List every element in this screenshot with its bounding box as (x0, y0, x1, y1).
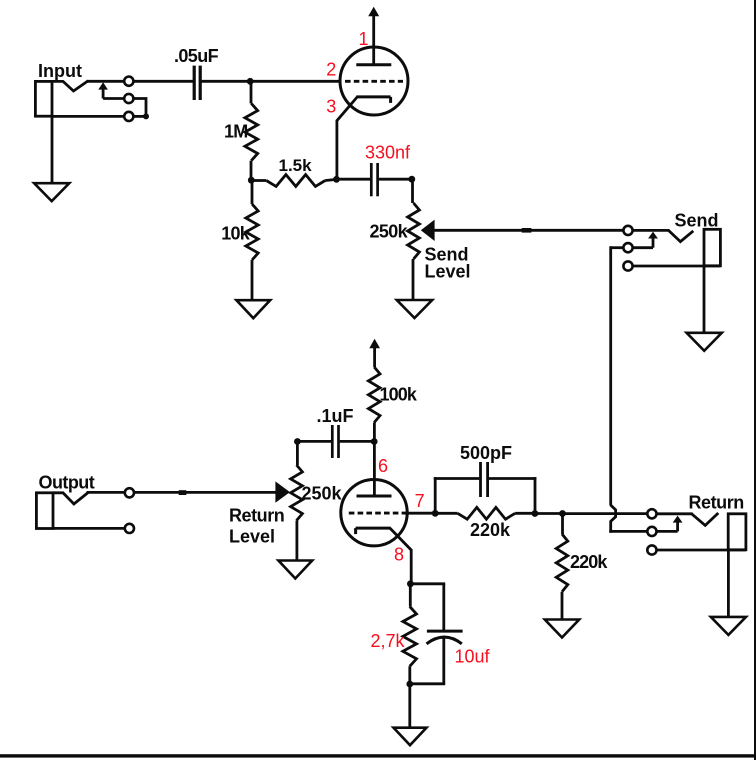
label R7 2,7k (371, 631, 406, 651)
jack J1 Input body (35, 81, 52, 116)
wire node E to C3 (297, 440, 331, 443)
jack J1 ring terminal (124, 94, 133, 103)
svg-text:10uf: 10uf (455, 647, 491, 667)
resistor R5 220k (435, 507, 535, 519)
ground input jack (34, 183, 69, 201)
capacitor C4 500pF (481, 462, 488, 497)
ground R3 (236, 300, 270, 318)
svg-text:250k: 250k (370, 222, 409, 242)
wire return bus to J4 ring (609, 530, 647, 533)
potentiometer VR2 wiper arrow (275, 481, 290, 502)
pin 7 label (415, 491, 425, 511)
svg-text:Output: Output (39, 473, 95, 493)
svg-text:.05uF: .05uF (174, 46, 219, 66)
wire node F to V2 plate (373, 442, 376, 497)
ground VR1 (397, 299, 432, 318)
label C2 330nf (365, 142, 411, 162)
svg-text:Send: Send (675, 210, 719, 230)
wire node C to C2 (337, 178, 371, 181)
jack J2 body (704, 229, 720, 265)
pin 3 label (326, 97, 336, 117)
jack J2 tip spring (669, 230, 694, 241)
node J junction (559, 510, 566, 517)
jack J1 sleeve terminal (124, 112, 133, 121)
svg-text:Return: Return (229, 505, 284, 525)
wire artifact segment (522, 228, 532, 233)
resistor R2 1.5k (251, 175, 337, 187)
tube V1 plate (356, 63, 391, 66)
ground return jack (711, 617, 746, 635)
jack J3 sleeve wire (53, 527, 124, 530)
tube V2 plate (357, 495, 392, 498)
wire node A to V1 grid (250, 80, 340, 83)
capacitor C5 10uf minus plate (427, 637, 462, 644)
node C junction (333, 176, 340, 183)
capacitor C2 330nf (371, 163, 377, 196)
jack J1 tip contact (52, 81, 88, 91)
jack J4 tip terminal (647, 509, 656, 518)
svg-text:250k: 250k (302, 483, 343, 503)
jack J1 switch arrow (98, 82, 108, 98)
label R1 1M (224, 122, 248, 142)
wire node I to node J (535, 512, 563, 515)
tube V2 cathode (356, 528, 391, 534)
wire C5 to bottom (410, 637, 445, 684)
label Return (689, 492, 744, 512)
jack J4 sleeve terminal (647, 545, 656, 554)
svg-text:500pF: 500pF (460, 443, 512, 463)
wire node J to Return jack tip (563, 512, 648, 515)
capacitor C5 10uf plus plate (427, 630, 463, 633)
label R6 220k (570, 552, 608, 572)
jack J4 ring terminal (647, 527, 656, 536)
wire J2 to ground (703, 266, 706, 334)
label Output (39, 473, 95, 493)
svg-text:220k: 220k (570, 552, 608, 572)
tube V2 grid (349, 512, 407, 515)
wire J2 sleeve (633, 265, 720, 268)
svg-text:Input: Input (38, 61, 82, 81)
node E junction (294, 438, 301, 445)
ground send jack (687, 333, 722, 351)
svg-text:8: 8 (394, 545, 404, 565)
pin 6 label (378, 456, 388, 476)
node H junction (407, 580, 414, 587)
svg-text:Return: Return (689, 492, 744, 512)
wire node H to C5 (410, 584, 445, 631)
resistor R7 2.7k (403, 584, 417, 685)
svg-text:.1uF: .1uF (317, 406, 354, 426)
label R4 100k (380, 385, 418, 405)
label Send Level (425, 245, 471, 282)
wire J4 to ground (727, 550, 730, 618)
wire J4 tip contact (657, 512, 693, 515)
label Return Level (229, 505, 284, 546)
svg-text:6: 6 (378, 456, 388, 476)
wire C4 loop left (434, 477, 480, 513)
svg-text:Level: Level (425, 261, 471, 281)
wire C4 loop right (489, 477, 537, 513)
jack J3 tip terminal (125, 488, 134, 497)
label R5 220k (470, 520, 511, 540)
jack J2 ring terminal (623, 243, 632, 252)
resistor R4 100k (368, 367, 380, 442)
svg-text:330nf: 330nf (365, 142, 411, 162)
jack J1 tip terminal (124, 77, 133, 86)
label Input (38, 61, 82, 81)
wire C3 to node F (340, 440, 375, 443)
frame border right (754, 0, 756, 760)
svg-text:1: 1 (359, 29, 369, 49)
svg-text:2: 2 (326, 60, 336, 80)
svg-text:7: 7 (415, 491, 425, 511)
pin 1 label (359, 29, 369, 49)
svg-text:1M: 1M (224, 122, 248, 142)
wire J1 switch to ring terminal (103, 97, 124, 100)
ground cathode network (394, 728, 427, 746)
jack J2 tip terminal (623, 226, 632, 235)
label Send (675, 210, 719, 230)
jack J3 Output body (36, 493, 53, 529)
wire J2 ring to return bus (611, 246, 623, 505)
junction ring-sleeve (143, 113, 149, 119)
svg-text:10k: 10k (221, 224, 250, 244)
jack J4 body (728, 514, 746, 550)
wire J1 sleeve (52, 115, 147, 118)
node F junction (371, 438, 378, 445)
label VR2 250k (302, 483, 343, 503)
resistor R3 10k (246, 181, 258, 302)
wire J2 tip contact (633, 229, 669, 232)
resistor R1 1M (245, 81, 258, 180)
potentiometer VR1 250k Send (408, 179, 420, 301)
jack J3 sleeve terminal (125, 524, 134, 533)
label R3 10k (221, 224, 250, 244)
capacitor C1 .05uF (194, 66, 200, 100)
label C1 .05uF (174, 46, 219, 66)
wire J3 tip to VR2 wiper (87, 491, 276, 494)
wire node K to ground (408, 684, 411, 729)
node G junction (432, 510, 439, 517)
wire J1 to ground (51, 116, 54, 184)
svg-text:3: 3 (326, 97, 336, 117)
power arrow V1 plate supply (368, 7, 379, 65)
pin 8 label (394, 545, 404, 565)
svg-text:220k: 220k (470, 520, 511, 540)
svg-text:Level: Level (229, 526, 275, 546)
wire J1 tip to C1 (87, 80, 194, 83)
svg-text:1.5k: 1.5k (279, 156, 313, 175)
jack J4 switch arrow (673, 516, 683, 532)
resistor R6 220k (556, 514, 568, 621)
wire VR1 wiper to Send jack (434, 229, 623, 232)
wire artifact segment 2 (179, 490, 187, 495)
wire C2 to node D (379, 178, 413, 181)
node I junction (532, 510, 539, 517)
node K junction (406, 681, 413, 688)
wire J2 ring to switch (633, 246, 653, 249)
tube V1 cathode (356, 97, 390, 103)
wire C1 to node A (202, 80, 252, 83)
ground R6 (545, 620, 579, 638)
tube V1 envelope (340, 47, 408, 115)
power arrow V2 plate supply (369, 339, 380, 367)
node A junction (247, 78, 254, 85)
jack J2 sleeve terminal (623, 261, 632, 270)
svg-text:100k: 100k (380, 385, 418, 405)
wire return bus crossover jog (611, 505, 616, 533)
svg-text:2,7k: 2,7k (371, 631, 406, 651)
node B junction (248, 177, 255, 184)
wire V2 cathode to node H (390, 528, 411, 584)
label VR1 250k (370, 222, 409, 242)
jack J4 tip spring (692, 513, 719, 525)
jack J3 tip contact (53, 493, 88, 504)
tube V2 envelope (341, 480, 407, 546)
wire J4 ring to switch (657, 530, 678, 533)
wire J4 sleeve (657, 549, 746, 552)
wire V2 grid to node G (405, 512, 436, 515)
jack J2 switch arrow (648, 232, 658, 248)
potentiometer VR1 wiper arrow (421, 220, 435, 241)
wire V1 cathode to node C (337, 97, 357, 180)
label C4 500pF (460, 443, 512, 463)
ground VR2 (278, 561, 312, 579)
node D junction (408, 176, 415, 183)
wire J1 ring to sleeve jog (134, 99, 146, 117)
frame border bottom (0, 754, 756, 757)
potentiometer VR2 250k Return (291, 442, 303, 562)
label C5 10uf (455, 647, 491, 667)
capacitor C3 .1uF (332, 425, 338, 458)
tube V1 grid (345, 80, 403, 83)
label R2 1.5k (279, 156, 313, 175)
label C3 .1uF (317, 406, 354, 426)
pin 2 label (326, 60, 336, 80)
